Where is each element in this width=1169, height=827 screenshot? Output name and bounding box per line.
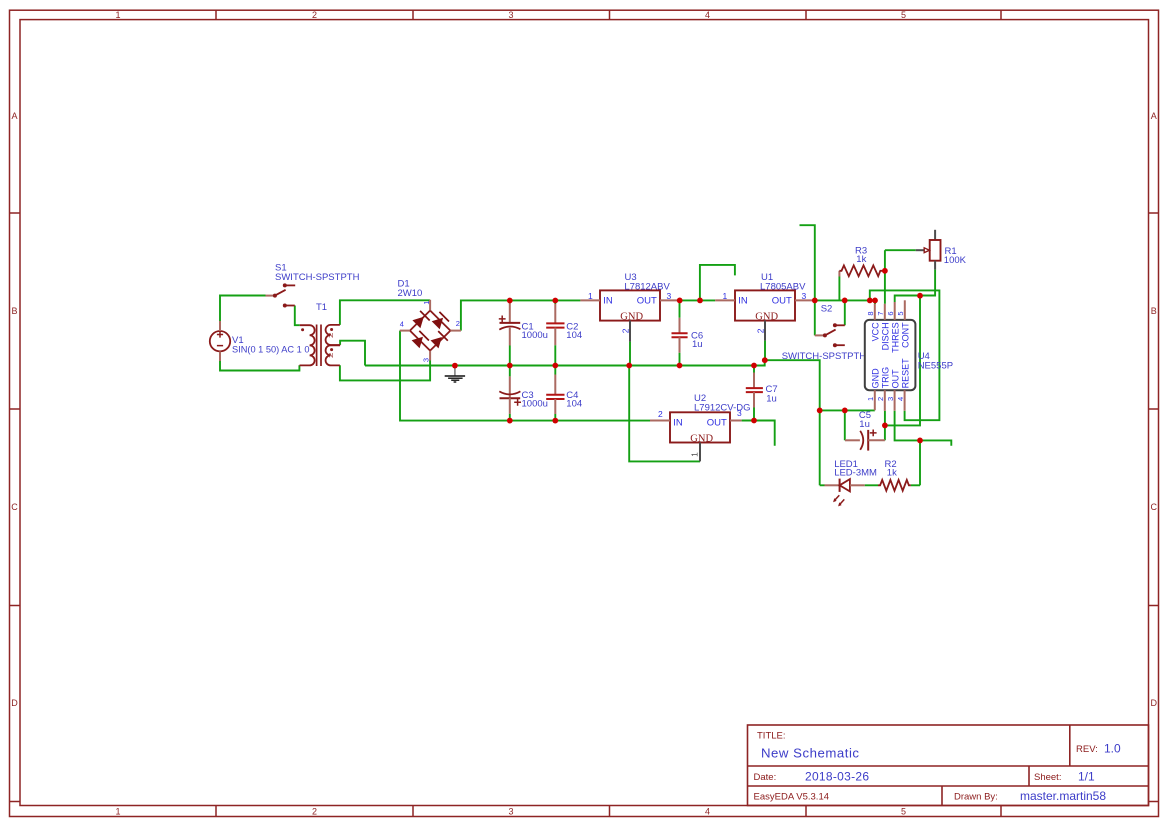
svg-text:2: 2: [312, 10, 317, 20]
svg-text:D: D: [11, 698, 18, 708]
svg-text:1000u: 1000u: [522, 399, 548, 410]
svg-text:3: 3: [508, 10, 513, 20]
wire THRES node down to TRIG node: [885, 296, 920, 426]
wire T1 center tap to mid rail: [340, 341, 365, 366]
switch S2: [782, 304, 867, 362]
wire C5 left riser: [844, 410, 846, 440]
svg-text:2: 2: [876, 397, 885, 401]
svg-text:1: 1: [689, 452, 699, 457]
svg-text:SIN(0 1 50) AC 1 0: SIN(0 1 50) AC 1 0: [232, 344, 310, 355]
wire OUT node down to R2: [919, 440, 921, 485]
svg-text:2W10: 2W10: [398, 288, 423, 299]
svg-text:B: B: [1151, 306, 1157, 316]
svg-text:104: 104: [566, 399, 582, 410]
svg-text:GND: GND: [755, 311, 778, 322]
svg-text:OUT: OUT: [637, 296, 657, 307]
bridge rectifier D1: [398, 279, 461, 363]
wire U1 pin3 to S2 pivot: [814, 300, 816, 335]
svg-text:THRES: THRES: [891, 322, 901, 353]
svg-text:Date:: Date:: [754, 772, 777, 783]
transformer T1: [300, 302, 341, 366]
svg-text:VCC: VCC: [871, 322, 881, 342]
svg-text:2: 2: [756, 328, 766, 333]
svg-text:1: 1: [115, 10, 120, 20]
regulator U2 L7912CV-DG: [650, 393, 751, 461]
svg-text:CONT: CONT: [901, 322, 911, 348]
svg-text:Sheet:: Sheet:: [1034, 772, 1061, 783]
svg-text:4: 4: [705, 807, 710, 817]
svg-text:L7812ABV: L7812ABV: [624, 281, 670, 292]
title block: [748, 725, 1149, 806]
resistor R2: [878, 459, 911, 491]
capacitor C4: [546, 366, 582, 421]
wire C7 to U2 pin3 node: [753, 408, 755, 421]
wire U2 pin1 to mid rail: [629, 366, 700, 462]
svg-text:2: 2: [312, 807, 317, 817]
svg-text:C: C: [11, 502, 18, 512]
svg-text:1k: 1k: [856, 254, 866, 265]
svg-text:5: 5: [901, 10, 906, 20]
wire D1 pin4 to bottom rail: [400, 331, 650, 421]
svg-text:B: B: [11, 306, 17, 316]
AC source V1: [210, 321, 310, 361]
svg-text:4: 4: [400, 319, 404, 328]
junction dots: [452, 268, 923, 443]
svg-text:A: A: [1151, 111, 1157, 121]
timer U4 NE555P: [865, 300, 953, 411]
svg-text:2018-03-26: 2018-03-26: [805, 770, 869, 784]
wire stub above U1 pin3: [800, 225, 815, 300]
svg-text:1: 1: [422, 301, 431, 305]
capacitor C1: [499, 301, 548, 366]
wire R2 right: [911, 484, 920, 486]
svg-text:L7805ABV: L7805ABV: [760, 281, 806, 292]
wire mid rail (0V): [365, 360, 820, 485]
wire U4 pin3 OUT: [895, 411, 952, 446]
wire S2 upper contact riser: [844, 300, 846, 325]
wire R3 left lead riser: [838, 277, 840, 301]
svg-text:IN: IN: [738, 296, 748, 307]
svg-text:3: 3: [667, 291, 672, 301]
svg-text:N: N: [329, 333, 333, 339]
svg-text:5: 5: [896, 311, 905, 315]
svg-text:SWITCH-SPSTPTH: SWITCH-SPSTPTH: [782, 351, 867, 362]
regulator U3 L7812ABV: [580, 272, 679, 341]
wire S1 lower contact to T1 primary top: [295, 306, 300, 326]
svg-text:IN: IN: [603, 296, 613, 307]
wire U2 pin3 output: [742, 421, 775, 446]
svg-text:2: 2: [621, 328, 631, 333]
wire LED to R2: [865, 484, 878, 486]
svg-text:SWITCH-SPSTPTH: SWITCH-SPSTPTH: [275, 272, 360, 283]
svg-text:3: 3: [737, 408, 742, 418]
svg-text:2: 2: [456, 319, 460, 328]
svg-text:GND: GND: [690, 433, 713, 444]
svg-text:GND: GND: [871, 368, 881, 389]
wire D1 pin2 to top rail to U3 pin1: [461, 300, 581, 330]
svg-text:L7912CV-DG: L7912CV-DG: [694, 402, 751, 413]
capacitor C5: [845, 410, 885, 451]
svg-text:N: N: [329, 353, 333, 359]
switch S1: [266, 263, 360, 308]
wire R3 right node down to U4 pin7: [884, 250, 886, 304]
svg-text:5: 5: [901, 807, 906, 817]
svg-text:3: 3: [886, 397, 895, 401]
svg-text:1k: 1k: [887, 468, 897, 479]
capacitor C6: [672, 300, 704, 365]
resistor R3: [839, 246, 885, 277]
svg-text:OUT: OUT: [891, 369, 901, 389]
wire U4 pin1 ground rail: [820, 409, 875, 411]
svg-text:LED-3MM: LED-3MM: [834, 467, 877, 478]
svg-text:OUT: OUT: [772, 296, 792, 307]
wire V1 top to S1: [220, 296, 266, 322]
wire antenna stub at node 12V: [700, 265, 735, 301]
svg-text:RESET: RESET: [901, 358, 911, 389]
wire U3 pin2 to mid rail: [629, 342, 631, 366]
svg-text:T1: T1: [316, 302, 327, 313]
svg-text:S2: S2: [821, 304, 833, 315]
svg-text:1: 1: [723, 291, 728, 301]
svg-text:3: 3: [508, 807, 513, 817]
svg-text:A: A: [11, 111, 17, 121]
svg-text:100K: 100K: [944, 255, 967, 266]
capacitor C2: [546, 301, 582, 366]
svg-text:DISCH: DISCH: [881, 322, 891, 350]
svg-text:TRIG: TRIG: [881, 367, 891, 389]
svg-text:1: 1: [115, 807, 120, 817]
svg-text:7: 7: [876, 311, 885, 315]
wire 5V rail U1 pin3 to U4 pin8: [815, 299, 875, 301]
svg-text:Drawn By:: Drawn By:: [954, 792, 998, 803]
wire R1 wiper: [885, 249, 916, 251]
svg-text:1.0: 1.0: [1104, 742, 1121, 756]
svg-text:EasyEDA V5.3.14: EasyEDA V5.3.14: [754, 792, 830, 803]
wire U3 pin3 to U1 pin1: [680, 299, 715, 301]
wire T1 secondary top to D1 pin1: [340, 300, 430, 325]
svg-text:REV:: REV:: [1076, 744, 1098, 755]
svg-text:OUT: OUT: [707, 418, 727, 429]
wire R1 bottom to U4 pin6: [895, 270, 935, 302]
svg-text:NE555P: NE555P: [918, 360, 953, 371]
wire LED row left: [820, 484, 825, 486]
svg-text:4: 4: [705, 10, 710, 20]
capacitor C7: [746, 366, 778, 408]
svg-text:1: 1: [588, 291, 593, 301]
svg-text:1: 1: [866, 397, 875, 401]
svg-text:1000u: 1000u: [522, 330, 548, 341]
ground: [445, 366, 465, 382]
svg-text:TITLE:: TITLE:: [757, 731, 786, 742]
wire U4 pin2 down to C5: [884, 411, 886, 440]
svg-text:8: 8: [866, 311, 875, 315]
svg-text:C: C: [1151, 502, 1158, 512]
wire T1 secondary bottom to D1 pin3: [340, 361, 430, 381]
svg-text:IN: IN: [673, 418, 683, 429]
svg-text:6: 6: [886, 311, 895, 315]
svg-text:4: 4: [896, 397, 905, 401]
potentiometer R1: [916, 230, 967, 270]
svg-text:New Schematic: New Schematic: [761, 746, 859, 761]
svg-text:3: 3: [422, 358, 431, 362]
capacitor C3: [499, 366, 548, 421]
svg-text:3: 3: [802, 291, 807, 301]
svg-text:1u: 1u: [692, 339, 703, 350]
svg-text:1u: 1u: [859, 419, 870, 430]
svg-text:GND: GND: [620, 311, 643, 322]
wire V1 bottom to T1 primary bottom: [220, 361, 299, 371]
wire U4 pin8 green bit: [874, 300, 876, 304]
svg-text:104: 104: [566, 330, 582, 341]
svg-text:1u: 1u: [766, 393, 777, 404]
regulator U1 L7805ABV: [715, 272, 815, 340]
LED LED1: [825, 459, 878, 507]
svg-text:2: 2: [658, 409, 663, 419]
svg-text:master.martin58: master.martin58: [1020, 789, 1106, 803]
wire VCC to U4 pin4 RESET: [870, 290, 940, 420]
svg-text:D: D: [1151, 698, 1158, 708]
svg-text:1/1: 1/1: [1078, 770, 1095, 784]
wire U1 pin2 to mid rail: [764, 341, 766, 361]
